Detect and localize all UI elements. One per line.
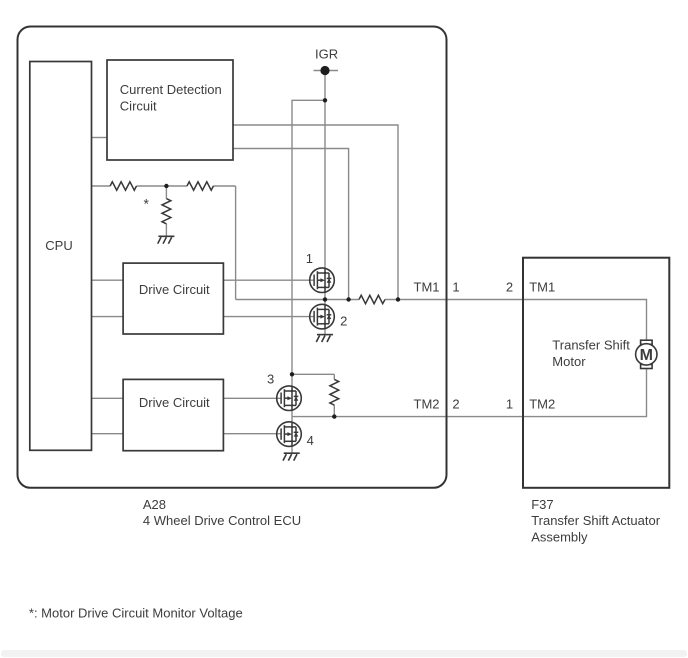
svg-text:Drive Circuit: Drive Circuit <box>139 282 210 297</box>
transistor Q2 (FET 2) <box>310 304 335 329</box>
node junction sense lower on TM1 <box>346 297 350 301</box>
net TM1 label F37 side <box>529 280 555 295</box>
wire IGR terminal bar <box>314 70 339 72</box>
pin 1 FET1 label <box>306 251 313 266</box>
node junction TM2 resistor <box>332 414 336 418</box>
wire TM1 rail to motor <box>385 300 647 341</box>
svg-text:Assembly: Assembly <box>531 529 588 544</box>
wire Drive Circuit 2 to gate of FET 3 <box>223 397 281 399</box>
svg-text:*: * <box>143 196 149 212</box>
net TM1 label ECU side <box>414 280 440 295</box>
footnote monitor voltage <box>29 606 243 621</box>
wire CPU to Drive Circuit 1 (lower) <box>92 316 123 318</box>
motor M1 transfer shift motor <box>636 340 657 368</box>
wire FET4 source to ground <box>291 446 293 453</box>
svg-text:4 Wheel Drive Control ECU: 4 Wheel Drive Control ECU <box>143 513 301 528</box>
A28 name label <box>143 513 301 528</box>
CPU block <box>30 62 92 451</box>
wire FET3 source to TM2 rail <box>291 410 293 416</box>
CPU label <box>45 238 72 253</box>
svg-text:4: 4 <box>307 433 314 448</box>
drive circuit 2 block <box>123 379 223 450</box>
wire monitor node to ground resistor lead <box>165 186 167 236</box>
monitor voltage asterisk <box>143 196 149 212</box>
wire FET2 drain from TM1 rail <box>324 300 326 305</box>
svg-text:2: 2 <box>340 314 347 329</box>
F37 name label line 2 <box>531 529 588 544</box>
svg-text:Current Detection: Current Detection <box>120 82 222 97</box>
node junction FET3 drain <box>290 372 294 376</box>
node junction monitor resistor <box>164 184 168 188</box>
svg-text:F37: F37 <box>531 497 553 512</box>
drive circuit 2 label <box>139 395 210 410</box>
current detection circuit label <box>120 82 222 114</box>
drive circuit 1 label <box>139 282 210 297</box>
svg-text:1: 1 <box>506 397 513 412</box>
resistor monitor to ground <box>162 199 171 224</box>
faint footer rule <box>1 650 687 657</box>
svg-text:1: 1 <box>306 251 313 266</box>
svg-text:*: Motor Drive Circuit Monitor: *: Motor Drive Circuit Monitor Voltage <box>29 606 243 621</box>
wire TM2 rail to motor <box>292 369 647 417</box>
pin 2 FET2 label <box>340 314 347 329</box>
pin 1 TM1 ECU side <box>452 280 459 295</box>
A28 designator <box>143 497 166 512</box>
motor M letter <box>640 347 653 364</box>
wire Drive Circuit 1 to gate of FET 2 <box>223 316 314 318</box>
wire TM1 rail left section <box>236 299 359 301</box>
pin 3 FET3 label <box>267 372 274 387</box>
transistor Q1 (FET 1) <box>310 268 335 293</box>
pin 4 FET4 label <box>307 433 314 448</box>
node junction sense upper on TM1 <box>396 297 400 301</box>
transistor Q3 (FET 3) <box>277 386 302 411</box>
wire CPU to Drive Circuit 2 (upper) <box>92 397 123 399</box>
ground under FET 2 <box>316 335 333 342</box>
svg-text:TM1: TM1 <box>529 280 555 295</box>
ground under FET 4 <box>283 453 300 460</box>
node IGR terminal <box>320 66 329 75</box>
wire CPU to Drive Circuit 2 (lower) <box>92 433 123 435</box>
svg-text:A28: A28 <box>143 497 166 512</box>
resistor monitor R1 <box>110 182 136 190</box>
ECU A28 outline <box>18 27 447 488</box>
pin 1 TM2 F37 side <box>506 397 513 412</box>
svg-text:IGR: IGR <box>315 46 338 61</box>
svg-text:2: 2 <box>452 397 459 412</box>
svg-text:Motor: Motor <box>552 354 586 369</box>
wire FET4 drain from TM2 rail <box>291 417 293 422</box>
svg-text:1: 1 <box>452 280 459 295</box>
wire monitor node down to TM1 rail <box>235 186 237 300</box>
F37 designator <box>531 497 553 512</box>
resistor IGR to TM2 <box>330 379 339 405</box>
svg-text:Transfer Shift Actuator: Transfer Shift Actuator <box>531 513 661 528</box>
F37 name label line 1 <box>531 513 661 528</box>
wire IGR down to FET1 drain <box>324 71 326 269</box>
transistor Q4 (FET 4) <box>277 422 302 447</box>
net TM2 label F37 side <box>529 397 555 412</box>
resistor monitor R2 <box>187 182 213 190</box>
wire FET1 source to TM1 rail <box>324 293 326 300</box>
svg-text:3: 3 <box>267 372 274 387</box>
pin 2 TM1 F37 side <box>506 280 513 295</box>
wire FET2 source to ground <box>324 329 326 335</box>
svg-text:2: 2 <box>506 280 513 295</box>
drive circuit 1 block <box>123 263 223 334</box>
svg-text:Circuit: Circuit <box>120 98 157 113</box>
wire Drive Circuit 1 to gate of FET 1 <box>223 279 314 281</box>
wire FET3 drain <box>291 374 293 386</box>
wire Current Detection sense lower <box>233 149 349 300</box>
current detection circuit block U-CDC <box>107 60 233 160</box>
svg-text:TM1: TM1 <box>414 280 440 295</box>
transfer shift motor label <box>552 338 630 369</box>
svg-text:CPU: CPU <box>45 238 72 253</box>
net TM2 label ECU side <box>414 397 440 412</box>
wire CPU to Drive Circuit 1 (upper) <box>92 279 123 281</box>
pin 2 TM2 ECU side <box>452 397 459 412</box>
wire Current Detection sense upper <box>233 125 398 300</box>
resistor shunt on TM1 <box>359 295 385 303</box>
wire IGR branch to TM2 pull resistor <box>292 374 334 416</box>
wire CPU to monitor resistor network <box>92 185 236 187</box>
svg-text:Transfer Shift: Transfer Shift <box>552 338 630 353</box>
F37 assembly outline <box>523 258 669 488</box>
wire CPU to Current Detection Circuit <box>92 137 108 139</box>
ground under monitor resistor <box>158 236 175 243</box>
node junction on IGR line <box>323 98 327 102</box>
svg-text:TM2: TM2 <box>529 397 555 412</box>
node junction FET1 source on TM1 <box>323 297 327 301</box>
node IGR label <box>315 46 338 61</box>
svg-text:M: M <box>640 347 653 364</box>
svg-text:Drive Circuit: Drive Circuit <box>139 395 210 410</box>
svg-text:TM2: TM2 <box>414 397 440 412</box>
wire Drive Circuit 2 to gate of FET 4 <box>223 433 281 435</box>
wire IGR branch left <box>292 100 325 374</box>
